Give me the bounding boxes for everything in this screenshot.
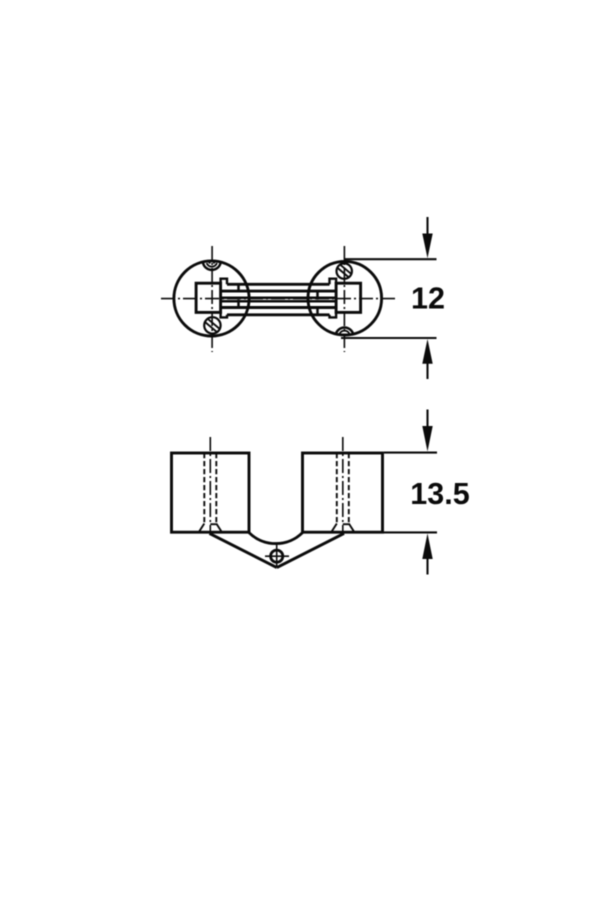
top screw slot line 1	[337, 267, 349, 277]
bottom screw of left disc (full head)	[204, 317, 220, 333]
pivot circle at V vertex	[271, 550, 283, 562]
bar inner line lower	[221, 306, 337, 309]
hidden hole flare left-inner	[216, 524, 221, 532]
bar inner line upper	[221, 290, 337, 293]
leaf step upper-left	[237, 284, 240, 291]
top screw of left disc: slot tick right	[214, 262, 215, 264]
top screw of left disc: outer arc	[203, 263, 221, 270]
right disc (circle)	[308, 261, 382, 335]
left top tab	[221, 279, 227, 285]
right bottom tab	[330, 312, 337, 317]
left disc front rectangle	[172, 453, 250, 532]
bottom screw of right disc: outer arc	[336, 327, 354, 334]
leaf step lower-right	[316, 308, 319, 315]
top screw of left disc: inner arc	[207, 263, 217, 267]
bar middle line lower	[221, 300, 337, 303]
screw hole centerline left	[209, 437, 211, 532]
dimension 12: bottom arrowhead	[422, 339, 432, 364]
dimension 13.5: top extension line	[384, 452, 437, 454]
screw hole centerline right	[342, 437, 344, 532]
bottom screw slot tick right	[346, 334, 347, 336]
right top tab	[330, 279, 337, 285]
vertical centerline right disc	[343, 246, 345, 352]
vertical centerline left disc	[211, 246, 213, 352]
top screw slot line 2	[340, 264, 352, 274]
bottom screw slot tick left	[342, 334, 343, 336]
svg-text:12: 12	[411, 282, 445, 316]
bar top edge	[227, 283, 330, 286]
left bottom tab	[221, 312, 227, 317]
dimension 13.5: bottom extension line	[383, 531, 438, 533]
dimension 12: top arrow tail	[426, 217, 428, 234]
right clamp block	[336, 283, 361, 312]
hidden hole flare left-outer	[199, 524, 204, 532]
top screw of right disc (full head)	[337, 263, 352, 278]
bottom screw slot line 1	[205, 322, 217, 332]
pivot crosshair vertical	[276, 545, 278, 568]
horizontal centerline through both discs	[161, 298, 396, 300]
svg-text:13.5: 13.5	[410, 477, 469, 511]
dimension 13.5: bottom arrow tail	[426, 559, 428, 575]
bar middle line upper	[221, 296, 337, 299]
leaf step lower-left	[237, 300, 240, 308]
bar bottom edge	[227, 313, 330, 316]
pivot crosshair horizontal	[265, 555, 289, 557]
left disc (circle)	[174, 261, 249, 336]
hidden hole flare right-outer	[349, 524, 354, 532]
hidden hole line right-right	[348, 453, 350, 524]
bottom screw slot line 2	[208, 319, 220, 329]
V bracket right arm	[277, 533, 344, 567]
leaf step upper-right	[316, 291, 319, 300]
dimension 12: bottom extension line	[341, 337, 437, 339]
hidden hole line left-right	[215, 453, 217, 524]
hidden hole line left-left	[203, 453, 205, 524]
dimension 13.5: bottom arrowhead	[422, 533, 432, 559]
right disc front rectangle	[303, 453, 383, 532]
U curve between discs	[249, 533, 303, 544]
hidden hole flare right-inner	[332, 524, 337, 532]
hidden hole bottom dash left	[210, 523, 216, 525]
V bracket left arm	[210, 533, 277, 567]
left clamp block	[196, 283, 221, 312]
dimension 13.5: top arrowhead	[422, 426, 432, 452]
dimension 13.5: top arrow tail	[426, 410, 428, 427]
hidden hole bottom dash right	[343, 523, 349, 525]
top screw of left disc: slot tick left	[209, 262, 210, 264]
bottom screw of right disc: inner arc	[339, 331, 349, 335]
hidden hole line right-left	[336, 453, 338, 524]
dimension 12: top arrowhead	[422, 234, 432, 259]
dimension 12: top extension line	[344, 258, 436, 260]
dimension 12: bottom arrow tail	[426, 364, 428, 380]
